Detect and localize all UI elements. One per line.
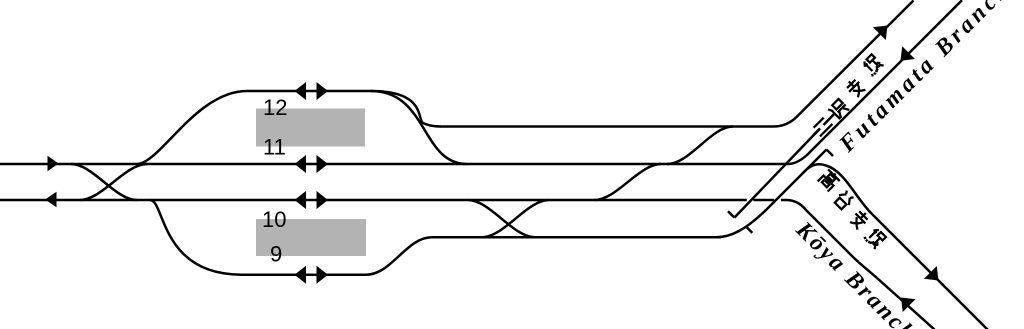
SEG1 lower tick	[728, 211, 734, 217]
arrow left on L3 west	[45, 192, 57, 207]
track 9 right ramp to L4	[366, 237, 432, 274]
arrow down-right on P koya outbound	[924, 266, 939, 281]
double arrow track 11 left	[295, 155, 307, 173]
track 12 right ramp to L2	[371, 91, 467, 164]
headshunt G from L4	[716, 150, 827, 238]
arrow up-left on Q koya inbound	[901, 298, 916, 313]
track 9 exit line L4	[432, 236, 721, 239]
track 9 loop left ramp	[150, 200, 242, 275]
svg-text:Kōya Branch: Kōya Branch	[790, 216, 922, 329]
track 10 main line L3	[0, 200, 935, 329]
svg-text:Futamata Branch: Futamata Branch	[834, 0, 1017, 158]
east crossover ascending L4 to L3	[482, 200, 549, 237]
koya branch outbound P from G	[803, 164, 988, 329]
arrow up-right on F1 futamata outbound	[873, 26, 888, 41]
arrow down-left on F2 futamata inbound	[901, 46, 916, 61]
track 9 platform track	[242, 273, 367, 276]
double arrow track 12 left	[295, 82, 307, 100]
track 12 loop left ramp	[137, 91, 247, 164]
double arrow track 12 right	[317, 82, 329, 100]
double arrow track 10 left	[295, 191, 307, 209]
ladder curve L2 to L1	[667, 127, 733, 165]
platform 12/11	[256, 109, 365, 147]
tick at G lower end	[746, 227, 752, 233]
west crossover ascending	[80, 164, 147, 200]
label koya shisen japanese	[811, 168, 893, 250]
west crossover descending	[71, 164, 137, 200]
track 11 main line L2	[0, 0, 962, 164]
double arrow track 9 left	[295, 266, 307, 284]
ladder curve L3 to L2	[594, 164, 661, 200]
track 12 right ramp to L1	[371, 91, 441, 127]
east crossover descending L3 to L4	[468, 200, 535, 237]
double arrow track 10 right	[317, 191, 329, 209]
svg-text:12: 12	[263, 95, 287, 120]
label futamata shisen japanese	[805, 54, 889, 138]
track 12 platform track	[247, 90, 371, 93]
svg-text:11: 11	[263, 135, 286, 160]
svg-text:9: 9	[270, 242, 282, 267]
track 12 bypass line L1	[440, 1, 914, 127]
arrow right on L2 west	[48, 156, 59, 171]
platform 10/9	[256, 219, 366, 256]
headshunt G buffer tick	[827, 150, 834, 157]
double arrow track 9 right	[317, 266, 329, 284]
svg-text:10: 10	[262, 207, 286, 232]
siding segment SEG1	[734, 114, 834, 218]
double arrow track 11 right	[317, 155, 329, 173]
SEG1 upper tick	[813, 129, 820, 136]
